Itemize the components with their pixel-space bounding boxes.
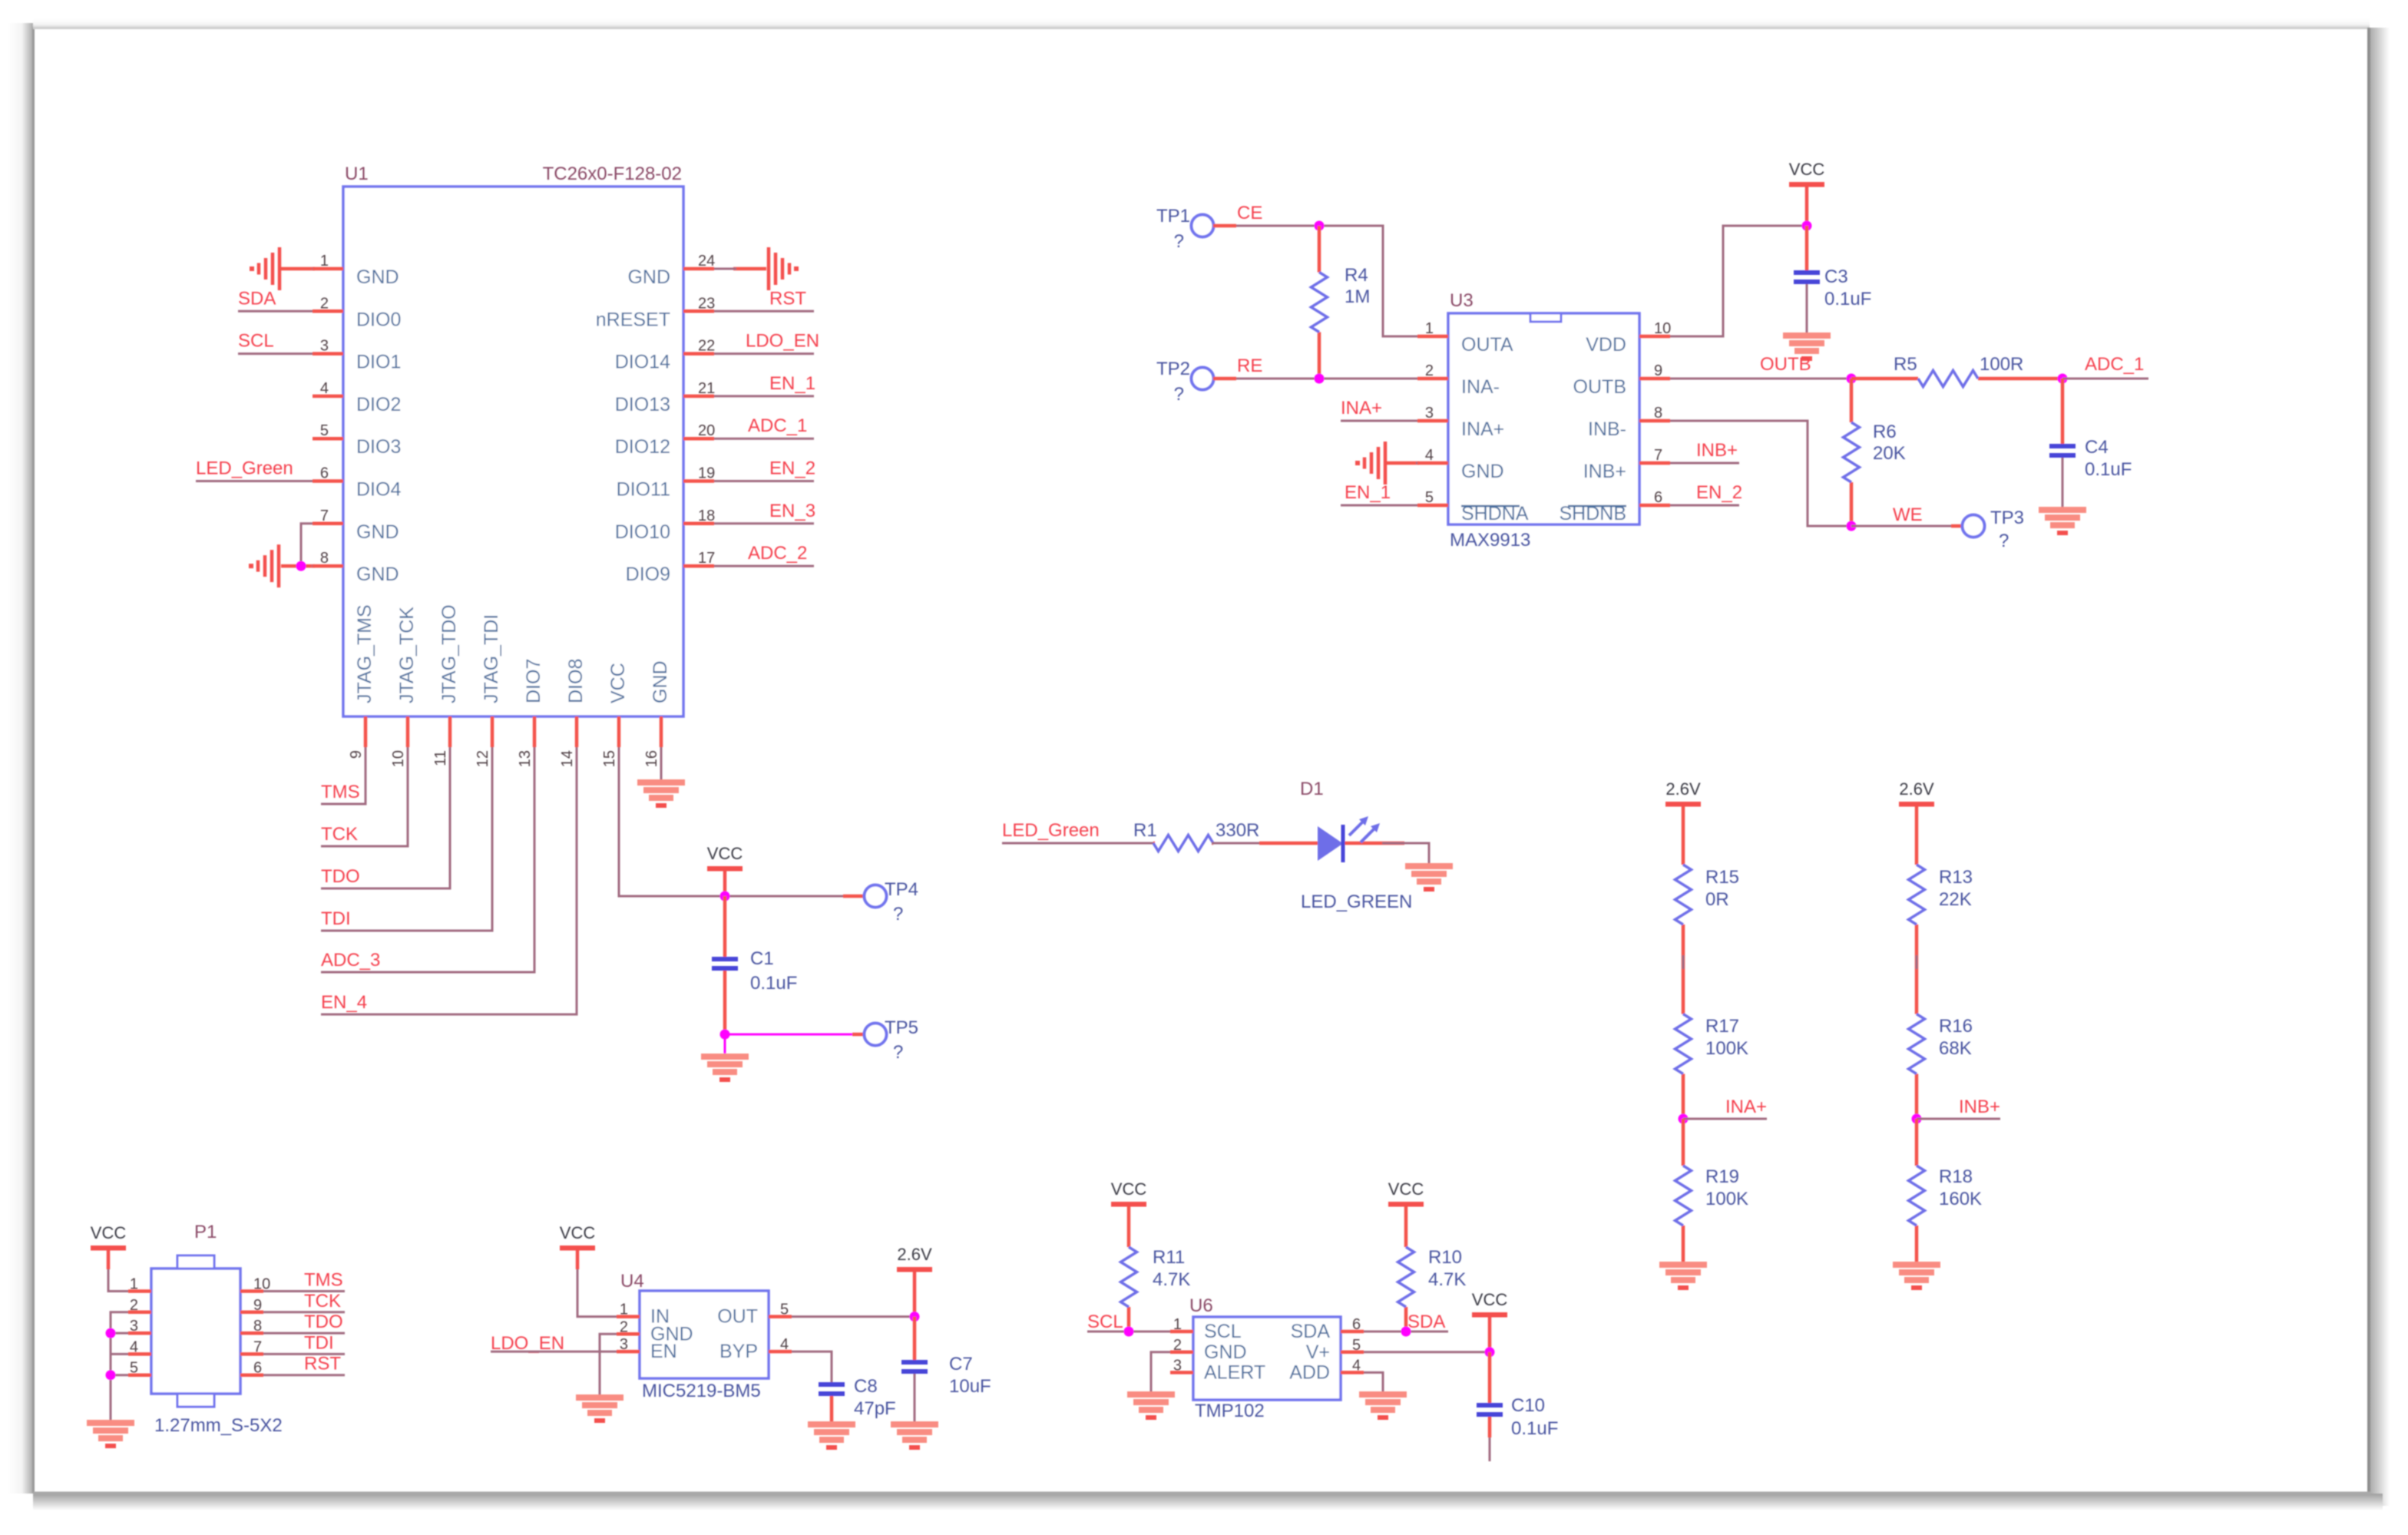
wire CE from TP1 to U3 pin 1 xyxy=(1213,224,1236,228)
svg-text:U3: U3 xyxy=(1450,290,1474,311)
svg-text:TMS: TMS xyxy=(321,782,360,802)
svg-text:OUTB: OUTB xyxy=(1573,376,1626,398)
wire ADC_2 from U1 pin 17 xyxy=(714,565,814,567)
svg-text:2: 2 xyxy=(320,295,329,312)
junction WE / R6 xyxy=(1847,521,1857,531)
svg-text:4: 4 xyxy=(780,1336,789,1353)
svg-text:EN_2: EN_2 xyxy=(1696,482,1742,503)
svg-text:22K: 22K xyxy=(1939,889,1972,910)
wire U1 pin 7 to pin 8 node xyxy=(301,524,313,566)
wire VCC to U4 pin 1 xyxy=(576,1250,580,1269)
svg-text:JTAG_TDO: JTAG_TDO xyxy=(438,604,460,703)
wire RST from P1 xyxy=(263,1374,345,1376)
ground at U3 pin 4 xyxy=(1355,442,1419,485)
test point TP2 xyxy=(1156,359,1214,405)
svg-text:3: 3 xyxy=(1425,405,1434,422)
svg-text:C8: C8 xyxy=(854,1376,878,1397)
wire R15 to R17 xyxy=(1682,955,1685,984)
svg-text:TP3: TP3 xyxy=(1990,508,2024,528)
capacitor C1 0.1uF xyxy=(712,896,797,1034)
IC U1 TC26x0-F128-02 xyxy=(313,164,715,767)
junction C1 / TP5 xyxy=(720,1030,730,1040)
svg-text:EN_1: EN_1 xyxy=(769,373,815,394)
svg-text:2: 2 xyxy=(620,1318,628,1335)
ground at U1 pin 16 xyxy=(637,779,685,786)
svg-text:TDO: TDO xyxy=(321,866,360,887)
resistor R13 22K xyxy=(1909,806,1973,969)
svg-text:1: 1 xyxy=(1173,1316,1182,1333)
svg-text:10: 10 xyxy=(390,750,407,767)
svg-text:V+: V+ xyxy=(1306,1341,1330,1363)
svg-text:INA+: INA+ xyxy=(1461,418,1504,440)
svg-text:RE: RE xyxy=(1237,356,1262,376)
resistor R5 100R xyxy=(1851,354,2062,387)
wire TCK from U1 pin 10 xyxy=(321,747,408,846)
svg-text:2.6V: 2.6V xyxy=(897,1245,932,1264)
wire TDI from U1 pin 12 xyxy=(321,747,492,931)
svg-text:EN_1: EN_1 xyxy=(1345,482,1391,503)
wire LDO_EN from U1 pin 22 xyxy=(714,352,814,355)
svg-text:160K: 160K xyxy=(1939,1189,1982,1209)
svg-text:24: 24 xyxy=(698,253,715,270)
svg-text:10: 10 xyxy=(1654,320,1671,337)
wire EN_1 from U1 pin 21 xyxy=(714,395,814,397)
svg-text:INA+: INA+ xyxy=(1725,1097,1767,1117)
power 2.6V above R13 xyxy=(1899,802,1934,807)
svg-text:7: 7 xyxy=(320,508,329,524)
svg-text:13: 13 xyxy=(517,750,534,767)
svg-text:RST: RST xyxy=(769,288,806,309)
wire U1 pin 8 to ground xyxy=(281,564,315,568)
svg-text:DIO0: DIO0 xyxy=(356,309,401,330)
svg-text:5: 5 xyxy=(1352,1337,1361,1354)
svg-text:3: 3 xyxy=(130,1318,138,1335)
junction OUTB / R6 xyxy=(1847,374,1857,384)
wire LED_Green to U1 pin 6 xyxy=(196,480,313,482)
wire OUT to 2.6V xyxy=(792,1315,915,1318)
power 2.6V above R15 xyxy=(1665,802,1701,807)
svg-text:OUTB: OUTB xyxy=(1760,354,1811,375)
svg-text:DIO9: DIO9 xyxy=(626,564,670,585)
svg-text:100R: 100R xyxy=(1980,354,2023,375)
wire TDO from P1 xyxy=(263,1332,345,1335)
wire INB- elbow to WE line xyxy=(1670,421,1851,526)
svg-text:DIO2: DIO2 xyxy=(356,394,401,415)
wire RE from TP2 to U3 pin 2 xyxy=(1213,377,1236,381)
svg-text:VCC: VCC xyxy=(91,1223,127,1242)
ground below U4 pin 2 xyxy=(576,1394,623,1401)
power VCC above U4 xyxy=(560,1246,595,1251)
svg-text:9: 9 xyxy=(253,1297,262,1314)
svg-text:6: 6 xyxy=(1654,489,1662,506)
wire D1 to ground xyxy=(1382,843,1429,863)
svg-text:INA-: INA- xyxy=(1461,376,1500,398)
IC U3 MAX9913 xyxy=(1417,290,1671,551)
svg-text:6: 6 xyxy=(253,1360,262,1377)
capacitor C4 0.1uF xyxy=(2049,379,2132,507)
wire RST from U1 pin 23 xyxy=(714,310,814,313)
svg-text:23: 23 xyxy=(698,295,715,312)
power VCC above R10 xyxy=(1388,1202,1424,1207)
svg-text:19: 19 xyxy=(698,465,715,482)
svg-text:LDO_EN: LDO_EN xyxy=(746,331,819,352)
svg-text:21: 21 xyxy=(698,380,715,397)
svg-text:R1: R1 xyxy=(1133,820,1157,841)
svg-text:R16: R16 xyxy=(1939,1016,1973,1037)
svg-text:TDI: TDI xyxy=(304,1332,334,1353)
svg-text:TCK: TCK xyxy=(304,1291,341,1312)
svg-text:OUT: OUT xyxy=(717,1306,758,1328)
svg-text:DIO1: DIO1 xyxy=(356,352,401,373)
svg-text:nRESET: nRESET xyxy=(596,309,670,330)
wire WE to TP3 xyxy=(1851,525,1951,528)
svg-text:SCL: SCL xyxy=(238,331,274,352)
ground below R19 xyxy=(1659,1262,1707,1268)
svg-text:TP4: TP4 xyxy=(885,879,918,900)
svg-text:GND: GND xyxy=(627,266,670,288)
svg-text:C7: C7 xyxy=(949,1354,973,1375)
svg-text:SDA: SDA xyxy=(1407,1312,1445,1332)
svg-text:EN_3: EN_3 xyxy=(769,501,815,521)
svg-text:BYP: BYP xyxy=(719,1341,758,1362)
junction VCC / C10 xyxy=(1485,1347,1495,1357)
svg-text:TP1: TP1 xyxy=(1156,206,1190,227)
svg-text:R18: R18 xyxy=(1939,1166,1973,1187)
wire TP5 (magenta) xyxy=(725,1034,852,1036)
wire SDA from U6 pin 6 xyxy=(1364,1331,1448,1333)
resistor R17 100K xyxy=(1675,969,1749,1119)
wire OUTB from U3 pin 9 xyxy=(1670,378,1851,380)
svg-text:TDI: TDI xyxy=(321,908,351,929)
junction 2.6V / C7 xyxy=(910,1312,920,1322)
power 2.6V above C7 xyxy=(897,1267,932,1272)
test point TP5 xyxy=(865,1017,919,1063)
svg-text:100K: 100K xyxy=(1705,1189,1748,1209)
svg-text:U6: U6 xyxy=(1189,1295,1213,1316)
svg-text:4: 4 xyxy=(1425,447,1434,464)
svg-text:8: 8 xyxy=(253,1318,262,1335)
svg-text:C10: C10 xyxy=(1511,1395,1545,1416)
ground at U1 pin 1 xyxy=(250,247,315,290)
svg-text:CE: CE xyxy=(1237,203,1262,223)
svg-text:0.1uF: 0.1uF xyxy=(1824,289,1871,309)
svg-text:EN_4: EN_4 xyxy=(321,992,367,1013)
wire TMS from P1 xyxy=(263,1290,345,1292)
svg-text:C1: C1 xyxy=(750,948,774,969)
svg-text:2: 2 xyxy=(1425,362,1434,379)
svg-text:INB-: INB- xyxy=(1588,418,1626,440)
junction SDA / R10 xyxy=(1401,1327,1411,1337)
svg-text:VCC: VCC xyxy=(560,1223,596,1242)
svg-text:MAX9913: MAX9913 xyxy=(1450,530,1530,551)
svg-text:VCC: VCC xyxy=(607,663,629,703)
svg-text:D1: D1 xyxy=(1300,779,1324,799)
svg-text:4.7K: 4.7K xyxy=(1428,1269,1466,1290)
svg-text:R13: R13 xyxy=(1939,867,1973,888)
svg-text:TP5: TP5 xyxy=(885,1017,918,1038)
svg-text:5: 5 xyxy=(780,1302,789,1318)
ground below D1 xyxy=(1405,863,1453,869)
svg-text:VCC: VCC xyxy=(1111,1179,1147,1199)
svg-text:5: 5 xyxy=(320,422,329,439)
svg-text:EN: EN xyxy=(650,1341,677,1362)
svg-text:10uF: 10uF xyxy=(949,1376,991,1397)
svg-text:47pF: 47pF xyxy=(854,1398,896,1419)
svg-text:1: 1 xyxy=(130,1276,138,1293)
capacitor C7 10uF xyxy=(901,1317,991,1421)
svg-text:0.1uF: 0.1uF xyxy=(750,973,797,994)
wire ADC_1 from U1 pin 20 xyxy=(714,438,814,440)
svg-text:R11: R11 xyxy=(1153,1247,1185,1268)
svg-text:DIO8: DIO8 xyxy=(565,659,587,703)
svg-text:P1: P1 xyxy=(194,1222,217,1242)
wire INB+ from U3 pin 7 xyxy=(1670,462,1739,465)
wire C1 to ground xyxy=(724,1034,726,1054)
svg-text:ADC_3: ADC_3 xyxy=(321,950,380,971)
svg-text:?: ? xyxy=(1174,231,1184,252)
wire ADC_3 from U1 pin 13 xyxy=(321,747,534,972)
wire INB+ xyxy=(1917,1118,2000,1120)
power VCC above C10 xyxy=(1472,1312,1507,1318)
svg-text:15: 15 xyxy=(601,750,618,767)
capacitor C3 0.1uF xyxy=(1794,226,1871,332)
wire TDI from P1 xyxy=(263,1353,345,1355)
resistor R19 100K xyxy=(1675,1119,1749,1262)
svg-text:4.7K: 4.7K xyxy=(1153,1269,1190,1290)
junction SCL / R11 xyxy=(1124,1327,1134,1337)
wire VCC to P1 pin 1 xyxy=(107,1250,111,1269)
svg-text:8: 8 xyxy=(320,550,329,567)
wire ADD to ground xyxy=(1364,1372,1383,1391)
svg-text:0.1uF: 0.1uF xyxy=(2085,459,2132,480)
wire U1 pin 16 to ground xyxy=(660,747,663,779)
svg-text:WE: WE xyxy=(1893,504,1923,525)
svg-text:DIO7: DIO7 xyxy=(523,659,544,703)
svg-text:?: ? xyxy=(893,904,903,925)
junction INB+ xyxy=(1912,1114,1922,1124)
svg-text:17: 17 xyxy=(698,550,715,567)
svg-text:SDA: SDA xyxy=(238,288,276,309)
svg-text:7: 7 xyxy=(253,1338,262,1355)
svg-text:3: 3 xyxy=(1173,1357,1182,1374)
svg-text:4: 4 xyxy=(130,1338,138,1355)
svg-text:0.1uF: 0.1uF xyxy=(1511,1418,1558,1439)
svg-text:DIO14: DIO14 xyxy=(615,352,670,373)
svg-text:DIO4: DIO4 xyxy=(356,479,401,501)
power VCC above P1 xyxy=(91,1246,126,1251)
svg-text:GND: GND xyxy=(1461,461,1504,482)
svg-text:R5: R5 xyxy=(1894,354,1917,375)
wire LED_Green to R1 xyxy=(1002,842,1155,845)
junction VCC / C3 xyxy=(1802,221,1812,231)
ground below C7 xyxy=(891,1421,938,1427)
svg-text:1: 1 xyxy=(1425,320,1434,337)
svg-text:C4: C4 xyxy=(2085,437,2109,458)
svg-text:GND: GND xyxy=(650,660,671,703)
power VCC above C3 xyxy=(1789,182,1824,187)
resistor R10 4.7K xyxy=(1398,1206,1467,1332)
resistor R1 330R xyxy=(1133,820,1259,852)
wire P1 pins 2-5 bus to ground xyxy=(111,1312,128,1420)
svg-text:INA+: INA+ xyxy=(1341,398,1382,418)
wire U6 pin 2 to ground xyxy=(1151,1352,1170,1391)
svg-text:RST: RST xyxy=(304,1354,341,1375)
svg-text:C3: C3 xyxy=(1824,266,1848,287)
svg-text:SCL: SCL xyxy=(1204,1321,1242,1342)
svg-text:ADC_2: ADC_2 xyxy=(748,543,807,564)
svg-text:16: 16 xyxy=(643,750,660,767)
svg-text:U1: U1 xyxy=(345,164,369,184)
junction CE / R4 xyxy=(1315,221,1325,231)
svg-text:GND: GND xyxy=(356,521,399,543)
ground at U1 pin 8 xyxy=(277,544,281,587)
connector P1 1.27mm_S-5X2 xyxy=(128,1222,283,1436)
svg-text:2: 2 xyxy=(1173,1337,1182,1354)
svg-text:SDA: SDA xyxy=(1291,1321,1331,1342)
wire U4 pin 2 to ground xyxy=(600,1334,617,1394)
wire R13 to R16 xyxy=(1916,955,1918,984)
svg-text:GND: GND xyxy=(356,266,399,288)
svg-text:INB+: INB+ xyxy=(1696,440,1738,461)
svg-text:JTAG_TMS: JTAG_TMS xyxy=(354,604,375,703)
wire SDA to U1 pin 2 xyxy=(238,310,313,313)
junction P1 pin 3 xyxy=(106,1328,116,1338)
svg-text:22: 22 xyxy=(698,338,715,355)
svg-text:68K: 68K xyxy=(1939,1038,1972,1059)
ground below R18 xyxy=(1893,1262,1940,1268)
wire EN_1 to U3 pin 5 xyxy=(1341,504,1417,507)
svg-text:LED_Green: LED_Green xyxy=(1002,820,1100,841)
svg-text:1: 1 xyxy=(320,253,329,270)
svg-text:9: 9 xyxy=(1654,362,1662,379)
junction at U1 pin 8 xyxy=(296,561,306,571)
svg-text:ADD: ADD xyxy=(1289,1361,1330,1383)
IC U4 MIC5219-BM5 xyxy=(617,1271,792,1401)
wire VDD to VCC xyxy=(1670,226,1807,336)
resistor R4 1M xyxy=(1311,226,1371,379)
svg-text:6: 6 xyxy=(1352,1316,1361,1333)
svg-text:?: ? xyxy=(1174,384,1184,405)
junction RE / R4 xyxy=(1315,374,1325,384)
svg-text:GND: GND xyxy=(1204,1341,1247,1363)
svg-text:330R: 330R xyxy=(1216,820,1259,841)
svg-text:DIO10: DIO10 xyxy=(615,521,670,543)
wire R1 to D1 xyxy=(1212,842,1318,845)
svg-text:3: 3 xyxy=(320,338,329,355)
svg-text:INB+: INB+ xyxy=(1959,1097,2000,1117)
svg-text:20: 20 xyxy=(698,422,715,439)
ground below U6 pin 2 xyxy=(1127,1391,1175,1398)
svg-text:ALERT: ALERT xyxy=(1204,1361,1265,1383)
wire SCL to U6 pin 1 xyxy=(1087,1331,1170,1333)
junction R5 / C4 xyxy=(2058,374,2068,384)
svg-text:20K: 20K xyxy=(1873,443,1906,464)
power VCC above R11 xyxy=(1111,1202,1146,1207)
ground below P1 xyxy=(87,1420,134,1426)
wire TCK from P1 xyxy=(263,1311,345,1313)
svg-text:ADC_1: ADC_1 xyxy=(748,415,807,436)
resistor R11 4.7K xyxy=(1121,1206,1191,1332)
svg-text:TCK: TCK xyxy=(321,824,358,845)
wire TDO from U1 pin 11 xyxy=(321,747,450,888)
svg-text:1: 1 xyxy=(620,1302,628,1318)
wire U1 pin 24 to ground xyxy=(733,267,766,271)
capacitor C10 0.1uF xyxy=(1477,1352,1558,1461)
junction VCC / C1 xyxy=(720,892,730,901)
ground below C1 xyxy=(701,1054,749,1060)
svg-text:14: 14 xyxy=(559,750,576,767)
svg-text:2.6V: 2.6V xyxy=(1665,779,1701,799)
svg-text:ADC_1: ADC_1 xyxy=(2085,354,2144,375)
junction INA+ xyxy=(1679,1114,1689,1124)
svg-text:EN_2: EN_2 xyxy=(769,458,815,479)
svg-text:TP2: TP2 xyxy=(1156,359,1190,379)
svg-text:6: 6 xyxy=(320,465,329,482)
wire VCC from U1 pin 15 xyxy=(619,747,843,896)
wire V+ to VCC xyxy=(1364,1351,1490,1353)
svg-text:TC26x0-F128-02: TC26x0-F128-02 xyxy=(543,164,682,184)
svg-text:R19: R19 xyxy=(1705,1166,1739,1187)
svg-text:7: 7 xyxy=(1654,447,1662,464)
test point TP1 xyxy=(1156,206,1214,252)
wire EN_3 from U1 pin 18 xyxy=(714,522,814,524)
LED D1 LED_GREEN xyxy=(1259,779,1412,912)
svg-text:JTAG_TCK: JTAG_TCK xyxy=(396,607,418,703)
svg-text:R15: R15 xyxy=(1705,867,1739,888)
svg-text:5: 5 xyxy=(1425,489,1434,506)
svg-text:VCC: VCC xyxy=(1388,1179,1424,1199)
wire EN_2 from U1 pin 19 xyxy=(714,480,814,482)
svg-text:1.27mm_S-5X2: 1.27mm_S-5X2 xyxy=(154,1415,283,1436)
svg-text:18: 18 xyxy=(698,508,715,524)
svg-text:R6: R6 xyxy=(1873,422,1897,442)
svg-text:DIO11: DIO11 xyxy=(617,479,670,501)
svg-text:?: ? xyxy=(1999,531,2009,551)
svg-text:VCC: VCC xyxy=(707,844,743,863)
power VCC above C1 xyxy=(707,866,743,872)
svg-text:LED_Green: LED_Green xyxy=(196,458,293,479)
wire LDO_EN to U4 pin 3 xyxy=(491,1351,617,1353)
wire ADC_1 xyxy=(2062,378,2148,380)
test point TP3 xyxy=(1963,508,2025,551)
resistor R18 160K xyxy=(1909,1119,1983,1262)
capacitor C8 47pF xyxy=(819,1376,896,1421)
svg-text:U4: U4 xyxy=(620,1271,644,1292)
svg-text:R10: R10 xyxy=(1428,1247,1462,1268)
svg-text:1M: 1M xyxy=(1345,286,1370,307)
svg-text:100K: 100K xyxy=(1705,1038,1748,1059)
ground below U6 pin 4 xyxy=(1359,1391,1407,1398)
test point TP4 xyxy=(865,879,919,925)
svg-text:VCC: VCC xyxy=(1472,1290,1508,1309)
wire EN_4 from U1 pin 14 xyxy=(321,747,577,1014)
svg-text:TMS: TMS xyxy=(304,1270,343,1291)
svg-text:4: 4 xyxy=(320,380,329,397)
svg-text:TDO: TDO xyxy=(304,1312,343,1332)
wire INA+ xyxy=(1683,1118,1767,1120)
svg-text:VCC: VCC xyxy=(1789,160,1825,179)
svg-text:R4: R4 xyxy=(1345,265,1368,286)
svg-text:8: 8 xyxy=(1654,405,1662,422)
svg-text:LED_GREEN: LED_GREEN xyxy=(1301,892,1412,912)
resistor R15 0R xyxy=(1675,806,1740,969)
wire SCL to U1 pin 3 xyxy=(238,352,313,355)
ground below C3 xyxy=(1783,332,1831,339)
ground below C4 xyxy=(2039,507,2086,513)
wire EN_2 from U3 pin 6 xyxy=(1670,504,1739,507)
svg-text:OUTA: OUTA xyxy=(1461,334,1513,356)
resistor R6 20K xyxy=(1844,379,1906,526)
